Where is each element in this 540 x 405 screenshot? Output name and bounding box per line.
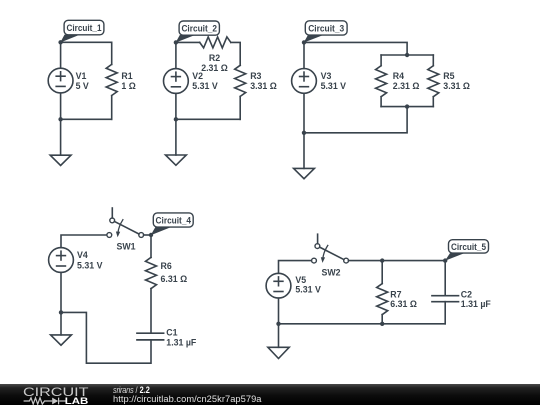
capacitor C1 — [137, 333, 164, 340]
wire: C2 branch down — [444, 261, 446, 296]
C1 value label — [166, 328, 197, 348]
wire: node down to R7 — [381, 261, 383, 284]
svg-text:Circuit_4: Circuit_4 — [156, 215, 192, 225]
voltage source V3 — [292, 69, 317, 94]
resistor R1 — [106, 42, 117, 119]
R5 value label — [443, 71, 470, 91]
svg-text:Circuit_3: Circuit_3 — [308, 23, 344, 33]
wire bottom — [61, 118, 112, 120]
svg-text:3.31 Ω: 3.31 Ω — [443, 81, 470, 91]
svg-text:Circuit_5: Circuit_5 — [451, 242, 486, 252]
wire top: node to R1 top — [61, 41, 112, 43]
svg-text:Circuit_1: Circuit_1 — [67, 23, 102, 33]
wire: bus down to bottom rail — [304, 107, 407, 133]
V3 value label — [321, 71, 347, 91]
svg-text:V5: V5 — [295, 275, 306, 285]
node junction dot c3 bottom — [302, 131, 306, 135]
wire parallel bottom bus — [381, 106, 433, 108]
svg-text:Circuit_2: Circuit_2 — [181, 24, 217, 34]
R2 value label — [201, 53, 228, 73]
svg-text:1.31 µF: 1.31 µF — [166, 337, 197, 347]
voltage source V5 — [266, 273, 291, 298]
wire: R6 bottom to C1 top — [150, 289, 152, 334]
resistor R4 — [376, 55, 387, 107]
node label Circuit_4 — [153, 213, 193, 227]
node junction dot bottom bus — [405, 104, 409, 108]
svg-text:R3: R3 — [250, 71, 261, 81]
resistor R2 — [200, 37, 231, 48]
node label Circuit_1 — [64, 20, 104, 35]
wire: V3 bottom to bottom rail — [303, 93, 305, 133]
svg-text:5.31 V: 5.31 V — [77, 260, 103, 270]
wire: node to R2 left — [176, 41, 200, 43]
svg-text:5 V: 5 V — [76, 81, 89, 91]
node A dot (Circuit_1 net) — [58, 40, 62, 44]
node junction dot R7 bottom — [380, 322, 384, 326]
wire: node down to R6 — [150, 235, 152, 257]
svg-text:V4: V4 — [77, 250, 88, 260]
label pointer wedge Circuit_1 — [60, 35, 80, 43]
wire: node down to V2 — [175, 42, 177, 68]
wire: V4 bottom down to node — [60, 272, 62, 312]
svg-text:2.31 Ω: 2.31 Ω — [393, 81, 420, 91]
node junction dot R7 top — [380, 258, 384, 262]
svg-text:6.31 Ω: 6.31 Ω — [390, 299, 417, 309]
R7 value label — [390, 290, 417, 309]
svg-text:2.31 Ω: 2.31 Ω — [201, 63, 228, 73]
capacitor C2 — [432, 296, 459, 302]
node junction dot c5 bottom — [276, 322, 280, 326]
V4 value label — [77, 250, 103, 270]
resistor R7 — [377, 284, 388, 315]
wire: SW1 right to node — [144, 234, 151, 236]
svg-text:3.31 Ω: 3.31 Ω — [250, 81, 277, 91]
node label Circuit_5 — [449, 240, 489, 253]
svg-text:V3: V3 — [321, 71, 332, 81]
voltage source V2 — [164, 69, 189, 94]
svg-text:LAB: LAB — [65, 396, 89, 405]
ground c1 — [50, 119, 71, 165]
node junction dot c4 bottom — [59, 310, 63, 314]
wire: V5 top to SW2 left — [279, 261, 312, 274]
node junction dot top bus — [405, 53, 409, 57]
R4 value label — [393, 71, 420, 91]
wire: SW2 right to C2 branch — [349, 260, 446, 262]
wire: C1 bottom, around to V4 bottom node — [61, 312, 151, 363]
node dot (Circuit_4 net) — [149, 233, 153, 237]
label pointer wedge Circuit_4 — [151, 227, 171, 235]
wire: node down to V1 top — [60, 42, 62, 68]
svg-text:C1: C1 — [166, 328, 177, 338]
svg-text:1 Ω: 1 Ω — [121, 81, 135, 91]
svg-text:V1: V1 — [76, 71, 87, 81]
node junction dot c2 bottom — [174, 117, 178, 121]
V1 value label — [76, 71, 89, 91]
footer text — [113, 386, 262, 404]
logo squiggle: wire, resistor, diode — [24, 398, 67, 405]
R3 value label — [250, 71, 277, 91]
svg-text:R4: R4 — [393, 71, 404, 81]
wire: V1 bottom to bottom node — [60, 93, 62, 119]
SW1 name label — [117, 242, 136, 252]
resistor R3 — [235, 65, 246, 119]
svg-text:R1: R1 — [121, 71, 132, 81]
footer bar — [0, 384, 540, 405]
wire: V5 bottom to rail — [278, 298, 280, 324]
svg-text:R6: R6 — [161, 261, 172, 271]
R6 value label — [161, 261, 188, 284]
node dot (Circuit_5 net) — [443, 258, 447, 262]
switch SW1 — [107, 208, 144, 237]
ground c4 — [51, 312, 72, 345]
wire: V2 bottom to bottom rail — [175, 93, 177, 119]
svg-text:5.31 V: 5.31 V — [321, 81, 347, 91]
label pointer wedge Circuit_5 — [445, 253, 465, 261]
svg-text:SW2: SW2 — [322, 267, 341, 277]
switch SW2 — [312, 234, 349, 263]
node dot (Circuit_2 net) — [174, 40, 178, 44]
voltage source V4 — [49, 248, 74, 273]
ground c5 — [268, 324, 289, 359]
label pointer wedge Circuit_3 — [304, 35, 323, 43]
node dot (Circuit_3 net) — [302, 40, 306, 44]
ground c3 — [294, 133, 315, 179]
svg-text:5.31 V: 5.31 V — [295, 285, 321, 295]
R1 value label — [121, 71, 135, 91]
wire: node down to V3 — [303, 42, 305, 68]
wire: V4 top to SW1 left — [61, 235, 107, 248]
V2 value label — [192, 71, 218, 91]
C2 value label — [461, 290, 492, 309]
svg-text:V2: V2 — [192, 71, 203, 81]
wire top: node to right corner, down to junction — [304, 42, 407, 55]
node label Circuit_2 — [179, 21, 219, 35]
svg-text:R5: R5 — [443, 71, 454, 81]
svg-text:5.31 V: 5.31 V — [192, 81, 218, 91]
resistor R5 — [428, 55, 439, 107]
wire: R7 bottom to rail — [381, 315, 383, 324]
resistor R6 — [146, 257, 157, 288]
node label Circuit_3 — [305, 21, 347, 35]
node junction dot c1 bottom — [58, 117, 62, 121]
wire: C2 bottom to rail — [444, 302, 446, 324]
wire bottom rail c5 — [279, 323, 446, 325]
svg-text:SW1: SW1 — [117, 242, 136, 252]
svg-text:6.31 Ω: 6.31 Ω — [161, 274, 188, 284]
wire bottom rail c2 — [176, 118, 240, 120]
wire parallel top bus — [381, 54, 433, 56]
CircuitLab logo — [0, 384, 100, 405]
voltage source V1 — [48, 68, 73, 93]
ground c2 — [166, 119, 187, 165]
svg-text:1.31 µF: 1.31 µF — [461, 299, 492, 309]
SW2 name label — [322, 267, 341, 277]
V5 value label — [295, 275, 321, 295]
label pointer wedge Circuit_2 — [176, 35, 195, 43]
svg-text:R2: R2 — [209, 53, 220, 63]
wire: R2 right to corner, down to R3 — [231, 42, 240, 65]
